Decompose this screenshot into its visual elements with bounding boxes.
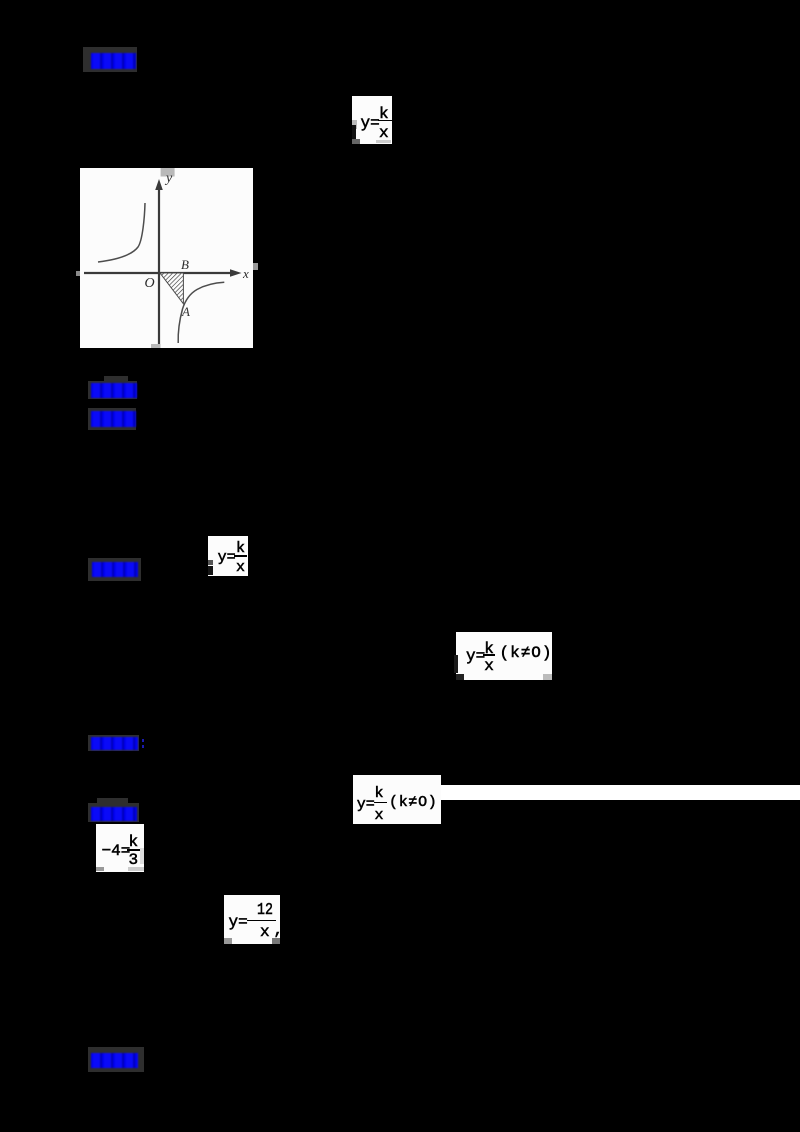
formula F3 y=k/x white box	[208, 536, 248, 576]
label blue L4	[91, 737, 138, 750]
formula F4 y=k/x (k≠O) white box	[456, 632, 552, 680]
formula F5 y=k/x (k≠O) white box	[353, 775, 441, 824]
label blue L3	[91, 411, 136, 427]
label blue L1 (答案)	[91, 53, 136, 69]
formula F4 artifacts	[454, 655, 458, 673]
formula F7 y=-12/x white box	[224, 895, 280, 944]
svg-text:B: B	[181, 257, 189, 272]
gray smudge top	[161, 168, 175, 177]
y axis	[158, 188, 160, 346]
svg-text:x: x	[242, 266, 249, 281]
label blue L7	[92, 562, 138, 577]
label blue L2	[91, 383, 137, 398]
hyperbola lower-right branch	[178, 282, 224, 343]
label blue L1 (答案) gray back	[83, 47, 137, 72]
formula F7 artifacts	[224, 938, 232, 944]
formula F3 artifacts	[208, 560, 213, 565]
label blue L6	[91, 1053, 138, 1068]
formula F1 y=k/x white box	[352, 96, 392, 144]
label blue L2 gray back	[88, 381, 137, 399]
hyperbola upper-left branch	[98, 203, 145, 262]
formula F6 artifacts	[96, 867, 104, 871]
formula F6 -4=k/3 white box	[96, 824, 144, 872]
hatched triangle OBA	[160, 273, 183, 304]
gray tick right of graph	[253, 263, 258, 270]
faint colon after L4	[142, 739, 145, 742]
x axis	[84, 272, 233, 274]
label blue L5	[91, 807, 137, 821]
graph image white box	[80, 168, 253, 348]
label blue L6 gray back	[88, 1047, 144, 1072]
formula F1 artifacts	[352, 120, 357, 129]
label blue L4 gray back	[88, 735, 139, 751]
white strip highlight to right margin	[441, 785, 800, 800]
gray tick left of graph	[76, 271, 80, 276]
label blue L5 gray back	[88, 803, 139, 822]
svg-text:y: y	[164, 171, 173, 186]
svg-text:O: O	[145, 276, 155, 291]
label blue L7 gray back	[88, 558, 141, 581]
svg-text:A: A	[181, 304, 190, 319]
label blue L3 gray back	[88, 408, 136, 430]
